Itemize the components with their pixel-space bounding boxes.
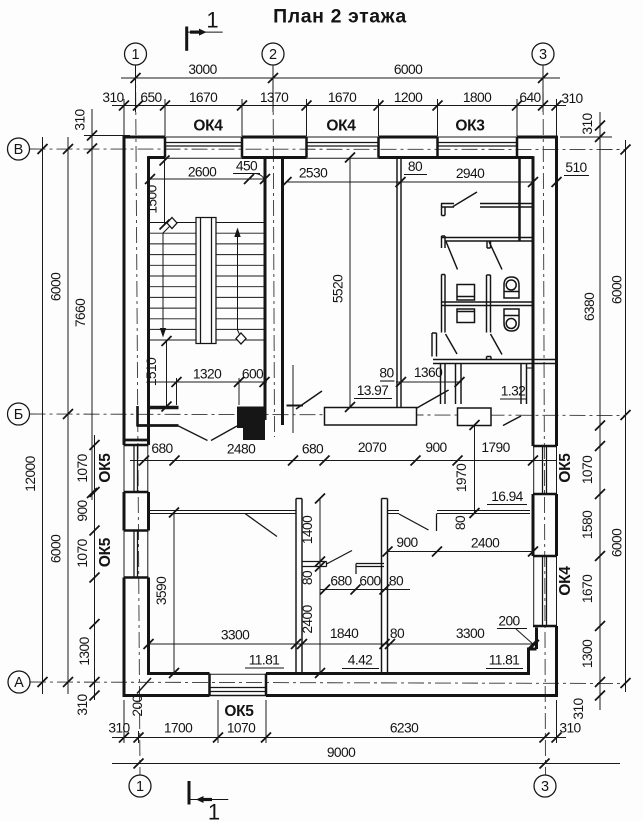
Б wall bottom face left [124, 439, 149, 442]
stair flight line down (with diamond start and arrow) [163, 224, 172, 331]
WC duct line [527, 367, 534, 369]
svg-text:80: 80 [389, 574, 404, 589]
axis bubble А [8, 671, 30, 693]
svg-text:1: 1 [208, 800, 220, 821]
axis line 2 [273, 65, 275, 437]
right detail chain 310/6380/1070/1580/1670/1300/310 [599, 112, 601, 710]
svg-text:ОК4: ОК4 [557, 566, 574, 596]
svg-text:13.97: 13.97 [357, 383, 389, 398]
dim line 6000/6000 right [625, 140, 627, 692]
entry double-door leaves (V) [179, 426, 238, 441]
svg-text:11.81: 11.81 [489, 653, 520, 668]
svg-text:12000: 12000 [23, 455, 38, 491]
axis bubble Б [8, 403, 30, 425]
axis line 3 [543, 65, 546, 775]
bathroom partition E vertical [487, 275, 491, 333]
bathroom door leaf top [453, 192, 477, 207]
dim 1500 vertical [164, 159, 166, 226]
svg-text:200: 200 [130, 694, 145, 716]
top dim row 2 chain [112, 99, 566, 136]
svg-text:2400: 2400 [471, 536, 500, 551]
svg-text:Б: Б [14, 407, 24, 423]
dim 3590 vertical left room [173, 513, 175, 674]
svg-text:3300: 3300 [456, 626, 485, 641]
svg-text:1070: 1070 [227, 721, 256, 736]
Б wall hollow segment (900 pier) [458, 408, 492, 426]
svg-text:600: 600 [359, 574, 381, 589]
top wall window thin outer lines [165, 136, 517, 138]
dim line 6000/6000 left [67, 137, 69, 694]
partition P2 [382, 499, 388, 674]
svg-text:1840: 1840 [330, 626, 359, 641]
svg-text:1.32: 1.32 [501, 384, 525, 399]
svg-text:900: 900 [396, 535, 418, 550]
svg-text:1070: 1070 [75, 453, 90, 482]
axis line 1 [136, 65, 141, 775]
dim 1510 vertical [166, 340, 168, 408]
svg-text:6000: 6000 [394, 62, 423, 77]
dim 900 / 2400 [388, 551, 534, 553]
svg-text:900: 900 [75, 499, 90, 521]
top dim row 1 (3000 / 6000) [121, 65, 560, 113]
svg-text:2070: 2070 [358, 440, 387, 455]
top wall inner face [149, 156, 534, 159]
stall lower door leaf 2 [491, 334, 503, 355]
svg-text:310: 310 [108, 721, 130, 736]
svg-text:1800: 1800 [463, 90, 492, 105]
right wall outer face [555, 136, 558, 697]
svg-text:План 2 этажа: План 2 этажа [273, 6, 407, 28]
window ОК4 right glazing lines [543, 556, 547, 626]
bathroom left wall [397, 158, 401, 408]
right wall inner face [529, 156, 537, 675]
svg-text:510: 510 [565, 160, 587, 175]
svg-text:1700: 1700 [164, 721, 193, 736]
section mark top [187, 27, 223, 51]
lobby jamb stub [432, 333, 437, 357]
bathroom bottom partition D2 (double) [433, 357, 557, 364]
svg-text:6230: 6230 [390, 721, 419, 736]
svg-text:ОК5: ОК5 [97, 537, 114, 567]
dim 1970 vertical [474, 425, 476, 513]
bathroom partition C [442, 238, 534, 249]
window ОК5 right glazing lines [543, 446, 547, 494]
left wall outer face [123, 136, 126, 697]
svg-text:6000: 6000 [49, 272, 64, 301]
svg-text:80: 80 [390, 626, 405, 641]
toilet 2 [504, 309, 519, 331]
partition stub right of P2 [388, 511, 400, 514]
svg-text:1070: 1070 [580, 455, 595, 484]
svg-text:1300: 1300 [77, 636, 92, 665]
svg-text:1300: 1300 [580, 639, 595, 668]
svg-text:680: 680 [151, 441, 173, 456]
svg-text:ОК4: ОК4 [326, 118, 356, 135]
window ОК4 glazing lines [165, 143, 517, 147]
top wall window jambs [165, 137, 517, 158]
svg-text:1670: 1670 [189, 90, 218, 105]
svg-text:640: 640 [519, 90, 541, 105]
axis bubble 1 bottom [129, 775, 151, 797]
svg-text:1970: 1970 [454, 463, 469, 492]
bathroom duct wall right [518, 158, 521, 242]
bathroom lobby door leaf [416, 390, 449, 409]
svg-text:4.42: 4.42 [348, 653, 372, 668]
WC 1.32 right partition [521, 364, 527, 405]
svg-text:1790: 1790 [481, 440, 510, 455]
svg-text:680: 680 [302, 442, 324, 457]
middle room bottom wall stub [287, 405, 304, 407]
axis bubble 1 top [125, 43, 147, 65]
svg-text:310: 310 [559, 721, 581, 736]
partition P1 [296, 499, 302, 674]
dim line 12000 [42, 137, 44, 694]
closet door leaf middle [327, 551, 353, 565]
bottom dim 9000 [112, 763, 620, 765]
svg-text:1500: 1500 [145, 184, 160, 213]
axis bubble В [8, 138, 30, 160]
svg-text:450: 450 [236, 159, 258, 174]
svg-text:1670: 1670 [328, 90, 357, 105]
svg-text:2530: 2530 [299, 166, 328, 181]
svg-text:80: 80 [300, 570, 315, 585]
svg-text:1400: 1400 [300, 515, 315, 544]
svg-text:3: 3 [539, 47, 547, 63]
svg-text:ОК4: ОК4 [193, 118, 223, 135]
Б wall hollow segment (2070) [325, 408, 417, 426]
left detail chain 1070/900/1070/1300/310 [94, 435, 96, 700]
svg-text:1670: 1670 [580, 574, 595, 603]
dim line 310/7660 left [91, 109, 93, 500]
svg-text:11.81: 11.81 [249, 653, 280, 668]
bathroom partition B vertical [442, 204, 446, 333]
axis line Б [30, 414, 626, 416]
svg-text:9000: 9000 [327, 745, 356, 760]
axis bubble 2 top [262, 43, 284, 65]
corridor upper partition (left of stair) [149, 406, 179, 410]
svg-text:2940: 2940 [456, 166, 485, 181]
svg-text:310: 310 [73, 108, 88, 130]
bathroom partition A [441, 204, 533, 208]
bottom wall inner face [147, 672, 530, 675]
stair wall left face (axis 2 wall) [264, 159, 267, 421]
stall door leaf 1 [446, 242, 458, 270]
stall door leaf 2 [489, 242, 502, 270]
svg-text:ОК3: ОК3 [455, 118, 485, 135]
svg-text:2480: 2480 [227, 442, 256, 457]
bottom wall outer face [123, 694, 558, 697]
svg-text:16.94: 16.94 [491, 489, 523, 504]
axis bubble 3 top [532, 43, 554, 65]
dim 2600 stairwell [150, 178, 265, 180]
450 label leader curve [256, 174, 265, 180]
dim 1360 [396, 381, 462, 383]
svg-text:200: 200 [498, 614, 520, 629]
leader 200 bottom-left [137, 678, 151, 694]
dim 5520 vertical middle room [349, 158, 351, 408]
axis bubble 3 bottom [534, 775, 556, 797]
door leaf to room 16.94 [503, 416, 521, 426]
stair treads [150, 223, 265, 341]
svg-text:1370: 1370 [260, 90, 289, 105]
svg-text:680: 680 [330, 574, 352, 589]
Б wall block right of entry door [237, 407, 265, 429]
svg-text:3000: 3000 [188, 62, 217, 77]
svg-text:1: 1 [131, 47, 139, 63]
bathroom top inner face [401, 156, 520, 159]
middle room door leaf [296, 391, 322, 409]
stair central stringer [196, 218, 216, 344]
bottom wall window thin outer line [210, 695, 267, 697]
svg-text:6000: 6000 [49, 534, 64, 563]
top wall outer face [124, 136, 557, 139]
svg-text:80: 80 [379, 366, 394, 381]
partition jamb drop [136, 406, 139, 426]
bottom chain 310/1700/1070/6230/310 [112, 737, 566, 739]
window ОК5 bottom glazing lines [210, 688, 267, 692]
dim row 3300/1840/80/3300 [149, 643, 534, 645]
svg-text:1070: 1070 [75, 538, 90, 567]
left wall window jambs [124, 445, 149, 578]
partition under room 16.94 [437, 511, 530, 514]
toilet 1 [504, 277, 519, 298]
window sill lines [148, 158, 534, 674]
WC 1.32 left partition [456, 364, 462, 405]
svg-text:2600: 2600 [188, 165, 217, 180]
svg-text:1200: 1200 [394, 90, 423, 105]
left wall inner face [147, 156, 150, 675]
svg-text:650: 650 [140, 90, 162, 105]
svg-text:310: 310 [580, 112, 595, 134]
stair wall right face [281, 158, 284, 426]
dim 2530 [287, 181, 401, 183]
svg-text:80: 80 [408, 159, 423, 174]
svg-text:ОК5: ОК5 [557, 453, 574, 483]
left wall window thin outer lines [123, 445, 125, 578]
window ОК5 left glazing lines [134, 445, 138, 578]
dim 680/600/80 closet [320, 589, 410, 591]
svg-text:1320: 1320 [193, 367, 222, 382]
svg-text:1: 1 [206, 8, 218, 33]
svg-text:ОК5: ОК5 [97, 453, 114, 483]
stall lower door leaf 1 [446, 334, 458, 354]
partition stub at 437 [436, 514, 438, 532]
dim 1400/80/2400 vertical [319, 499, 321, 674]
svg-text:В: В [14, 142, 24, 158]
lobby right partition below D2 [441, 364, 446, 405]
svg-text:А: А [14, 675, 24, 691]
svg-text:1: 1 [136, 779, 144, 795]
svg-text:80: 80 [453, 515, 468, 530]
svg-text:310: 310 [102, 90, 124, 105]
svg-text:6380: 6380 [582, 292, 597, 321]
svg-text:310: 310 [75, 693, 90, 715]
right wall window jambs [533, 446, 557, 626]
section mark bottom [189, 781, 228, 805]
svg-text:ОК5: ОК5 [224, 703, 254, 720]
right wall window thin outer lines [556, 446, 558, 626]
dim 1320 / 600 stair bottom [152, 381, 267, 383]
svg-text:600: 600 [242, 367, 264, 382]
closet double line top-left room [149, 511, 297, 514]
P1 right stub partition [302, 562, 327, 567]
Б wall top face left [137, 424, 179, 427]
axis line А [30, 682, 626, 684]
stair flight line up (with diamond start and arrow) [238, 234, 242, 338]
svg-text:2: 2 [269, 47, 277, 63]
bottom wall window jambs [210, 674, 267, 696]
svg-text:3590: 3590 [154, 576, 169, 605]
svg-text:6000: 6000 [610, 275, 625, 304]
svg-text:3: 3 [541, 779, 549, 795]
washbasin 2 [457, 309, 475, 323]
svg-text:310: 310 [571, 697, 586, 719]
svg-text:900: 900 [425, 440, 447, 455]
closet door leaf [245, 514, 277, 537]
bathroom partition D (two stall backs) [442, 302, 534, 306]
svg-text:1580: 1580 [580, 510, 595, 539]
svg-text:5520: 5520 [331, 274, 346, 303]
door leaf to room 16.94 lower [399, 514, 429, 530]
svg-text:3300: 3300 [221, 628, 250, 643]
svg-text:2400: 2400 [300, 604, 315, 633]
axis line В [30, 148, 626, 151]
closet partition segment [356, 564, 384, 575]
svg-text:1360: 1360 [414, 365, 443, 380]
svg-text:310: 310 [561, 91, 583, 106]
dim 2940 bathroom [401, 181, 534, 183]
washbasin 1 [457, 285, 475, 301]
Б wall dim chain 680/2480/680/2070/900/1790 [130, 460, 557, 462]
svg-text:7660: 7660 [73, 298, 88, 327]
svg-text:6000: 6000 [610, 528, 625, 557]
